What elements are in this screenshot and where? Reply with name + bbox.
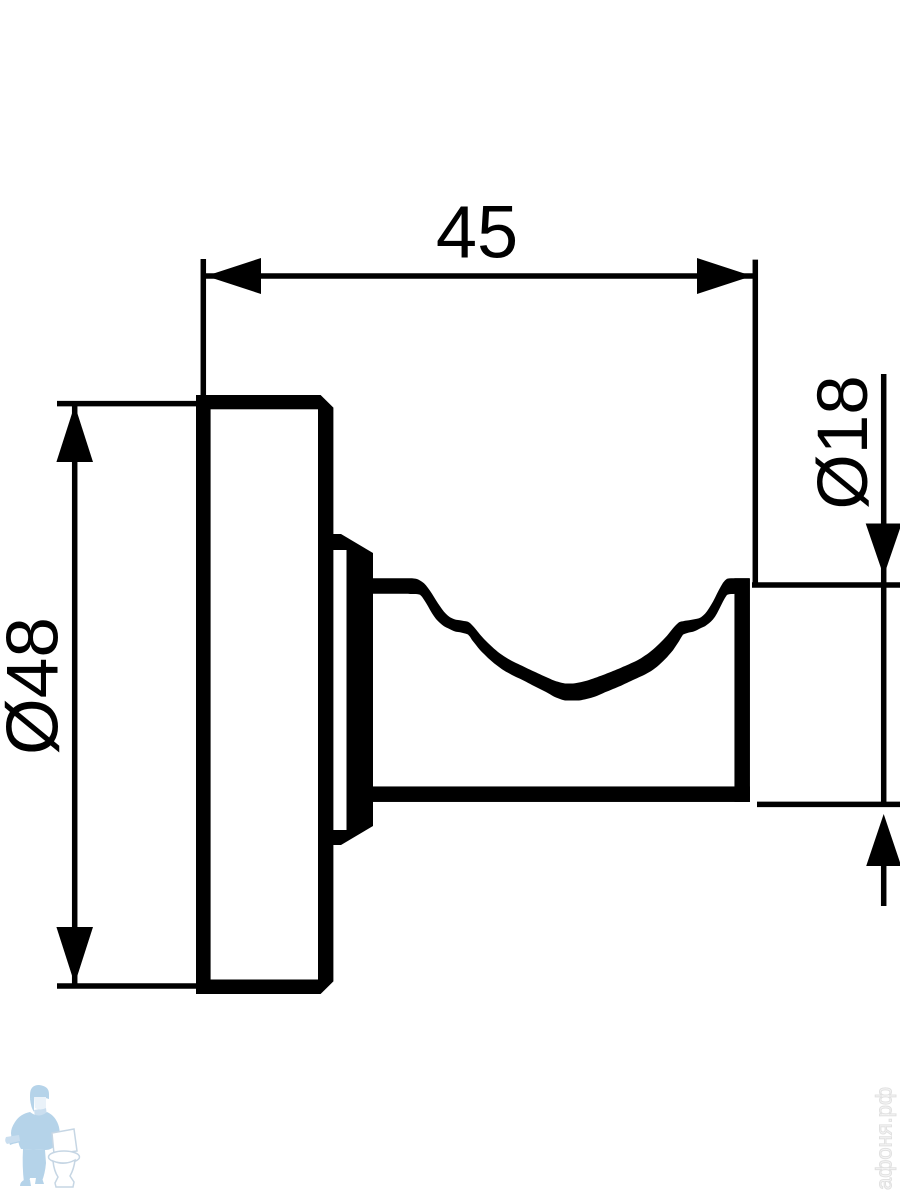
svg-text:Ø48: Ø48 [0, 617, 74, 755]
svg-text:45: 45 [436, 191, 518, 274]
svg-text:Ø18: Ø18 [804, 375, 883, 509]
svg-text:афоня.рф: афоня.рф [872, 1087, 897, 1190]
